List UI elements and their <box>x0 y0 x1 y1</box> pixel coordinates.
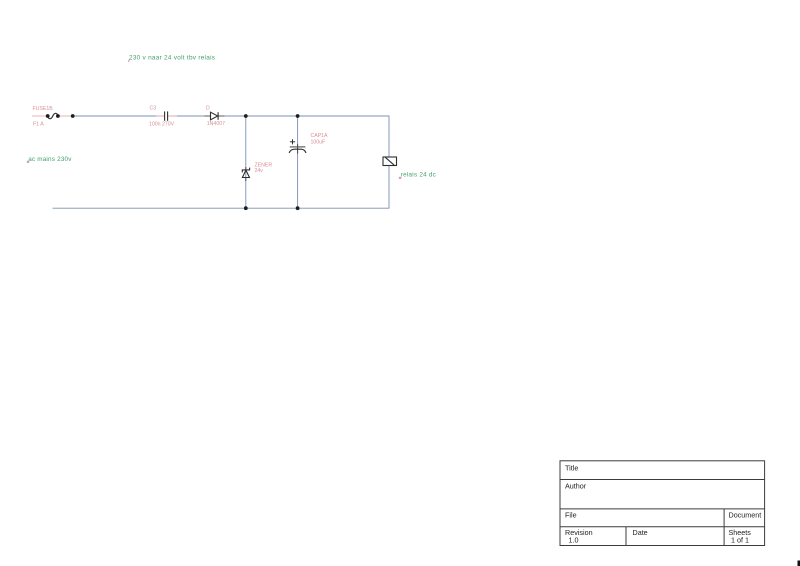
capacitor C3 lead right (pink) <box>168 115 177 117</box>
svg-text:1 of 1: 1 of 1 <box>731 535 749 544</box>
svg-text:C3: C3 <box>150 106 157 112</box>
fuse F1 lead right (pink) <box>58 115 73 117</box>
title block divider File/Document <box>723 509 725 546</box>
pink origin mark of top note <box>128 59 129 62</box>
zener lead stub above (dark) <box>245 167 247 170</box>
node dot cap bottom <box>296 206 300 210</box>
node dot zener bottom <box>244 206 248 210</box>
capacitor CAP1A top plate <box>290 146 306 148</box>
svg-text:1N4007: 1N4007 <box>207 121 225 127</box>
svg-text:Date: Date <box>633 528 648 537</box>
zener diode bar with wings <box>242 168 249 173</box>
title block divider Revision/Date <box>625 527 627 546</box>
pink origin mark of relais note <box>399 177 402 179</box>
wire: relay bottom down to bottom rail, bottom rail to left end <box>53 166 390 209</box>
svg-text:Title: Title <box>565 464 578 473</box>
title block line under File row <box>560 526 765 528</box>
svg-text:100uF: 100uF <box>311 140 326 146</box>
svg-text:CAP1A: CAP1A <box>311 133 329 139</box>
svg-text:Author: Author <box>565 482 587 491</box>
zener lead stub below (dark) <box>245 178 247 182</box>
node dot cap top <box>296 114 300 118</box>
svg-text:File: File <box>565 510 577 519</box>
scan artifact: black corner mark <box>798 561 800 566</box>
zener diode triangle <box>242 170 249 177</box>
svg-text:24v: 24v <box>255 168 264 174</box>
wire: diode to top-right corner and down to relay <box>218 116 389 157</box>
capacitor C3 lead left (pink) <box>156 115 164 117</box>
fuse F1 body (S-curve) <box>48 113 58 118</box>
wire: C3 to diode <box>168 115 211 117</box>
svg-text:FUSE1B: FUSE1B <box>33 106 54 112</box>
capacitor CAP1A lead stub (dark) <box>297 144 299 154</box>
svg-text:1.0: 1.0 <box>569 535 579 544</box>
fuse terminal dot right <box>56 114 60 118</box>
node dot zener top <box>244 114 248 118</box>
svg-text:relais 24 dc: relais 24 dc <box>401 172 436 179</box>
diode D triangle <box>211 112 218 120</box>
svg-text:100n 270V: 100n 270V <box>149 121 175 127</box>
capacitor CAP1A plus sign <box>290 139 295 144</box>
title block frame <box>560 461 765 546</box>
wire: top rail from fuse to C3 <box>73 115 164 117</box>
title block line under Author row <box>560 508 765 510</box>
wire: capacitor branch vertical <box>297 116 299 208</box>
fuse F1 lead left (pink) <box>32 115 48 117</box>
node dot after fuse <box>71 114 75 118</box>
fuse terminal dot left <box>46 114 50 118</box>
diode D cathode bar <box>217 112 219 120</box>
svg-text:F1 A: F1 A <box>33 121 44 127</box>
capacitor C3 plates <box>165 111 168 120</box>
pink origin mark of ac mains note <box>27 161 29 163</box>
svg-text:D: D <box>206 106 210 112</box>
relay diagonal line <box>385 157 394 165</box>
svg-text:ac mains 230v: ac mains 230v <box>28 156 72 163</box>
svg-text:230 v naar 24 volt tbv relais: 230 v naar 24 volt tbv relais <box>129 54 215 61</box>
svg-text:Document: Document <box>729 510 762 519</box>
title block line under Title row <box>560 479 765 481</box>
diode D lead left (dark) <box>205 115 211 117</box>
wire: zener branch vertical <box>245 116 247 208</box>
capacitor CAP1A bottom curved plate <box>289 149 306 153</box>
relay coil body <box>383 157 397 166</box>
diode D lead right (dark) <box>218 115 224 117</box>
